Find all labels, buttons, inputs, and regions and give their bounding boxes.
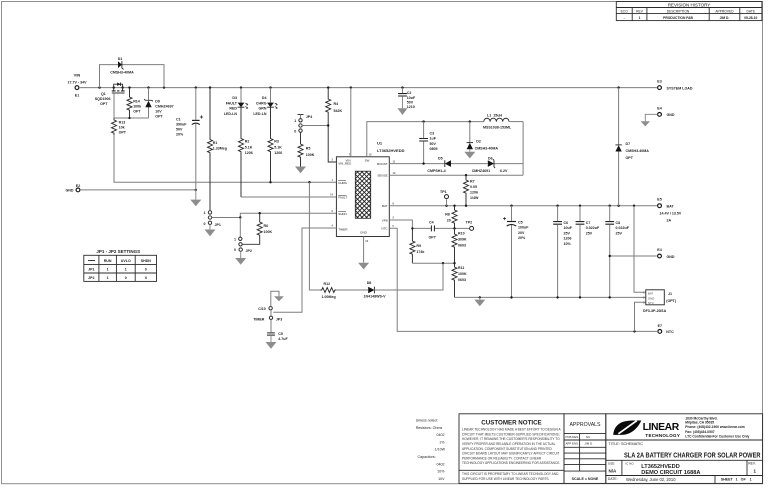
svg-text:D4: D4 (262, 96, 267, 100)
resistor R12 (321, 282, 337, 299)
wire SENSE net (389, 174, 523, 176)
svg-text:100K: 100K (264, 230, 273, 234)
capacitor C4 (429, 220, 437, 239)
resistor R9 (410, 228, 425, 263)
svg-text:PRODUCTION FAB: PRODUCTION FAB (663, 16, 693, 20)
svg-text:0: 0 (145, 268, 147, 272)
svg-text:TECHNOLOGY: TECHNOLOGY (645, 433, 680, 438)
wire VFB net (389, 220, 454, 228)
svg-text:TITLE: SCHEMATIC: TITLE: SCHEMATIC (609, 442, 644, 446)
capacitor C1 (176, 88, 203, 190)
svg-text:J1: J1 (668, 292, 672, 296)
svg-text:20%: 20% (518, 236, 526, 240)
svg-text:E4: E4 (657, 106, 661, 110)
svg-text:CIRCUIT THAT MEETS CUSTOMER-SU: CIRCUIT THAT MEETS CUSTOMER-SUPPLIED SPE… (462, 432, 560, 436)
svg-text:LT3652HVEDD: LT3652HVEDD (641, 464, 679, 470)
svg-text:NC: NC (586, 435, 590, 439)
svg-text:SQD1906: SQD1906 (95, 97, 111, 101)
svg-text:5.1K: 5.1K (274, 145, 282, 149)
wire E2 GND line (81, 189, 196, 191)
svg-text:-: - (624, 16, 625, 20)
svg-text:0603: 0603 (458, 244, 466, 248)
terminal E5 BAT (657, 198, 682, 223)
svg-text:LTC Confidential-For Customer: LTC Confidential-For Customer Use Only (685, 435, 749, 439)
svg-text:CMHZ4691: CMHZ4691 (472, 169, 490, 173)
resistor R8 (445, 206, 457, 229)
svg-text:TECHNOLOGY APPLICATIONS ENGINE: TECHNOLOGY APPLICATIONS ENGINEERING FOR … (462, 461, 560, 465)
wire D8 to divider node (374, 263, 443, 290)
svg-text:1: 1 (639, 16, 641, 20)
terminal E2 GND (66, 184, 81, 193)
svg-text:N/A: N/A (609, 468, 618, 473)
ground symbol (JP3 C/10) (274, 296, 284, 301)
capacitor C7 (576, 206, 600, 298)
svg-text:10V: 10V (438, 477, 445, 481)
svg-text:1: 1 (107, 276, 109, 280)
svg-text:U1: U1 (377, 141, 383, 146)
svg-text:OPT: OPT (429, 236, 437, 240)
svg-text:0: 0 (125, 276, 127, 280)
svg-text:TP1: TP1 (440, 190, 447, 194)
svg-text:R4: R4 (334, 102, 339, 106)
wire D1 bypass loop (100, 65, 165, 88)
svg-text:100K: 100K (458, 272, 467, 276)
resistor R6 (242, 213, 272, 244)
svg-text:1210: 1210 (407, 105, 415, 109)
capacitor C2 (398, 88, 416, 109)
svg-text:Q1: Q1 (101, 92, 106, 96)
svg-text:R10: R10 (458, 232, 465, 236)
svg-text:0805: 0805 (430, 147, 438, 151)
svg-text:2A: 2A (667, 218, 672, 222)
svg-text:D8: D8 (367, 281, 372, 285)
svg-text:CUSTOMER NOTICE: CUSTOMER NOTICE (481, 420, 541, 427)
wire BAT rail (389, 205, 657, 207)
wire gate net bottom (114, 117, 149, 119)
jumper JP1 (204, 211, 221, 227)
svg-text:REV.: REV. (748, 462, 756, 466)
LED D3 FAULT (224, 88, 248, 116)
wire BOOST net (389, 163, 523, 165)
svg-text:R9: R9 (416, 244, 421, 248)
svg-text:VIN_REG: VIN_REG (338, 162, 352, 166)
svg-text:10uF: 10uF (564, 226, 573, 230)
svg-text:VFB: VFB (382, 218, 388, 222)
svg-text:APPLICATION. COMPONENT SUBSTI: APPLICATION. COMPONENT SUBSTITUTION AND … (462, 447, 553, 451)
test point TP2 (455, 221, 474, 231)
svg-text:C8: C8 (616, 221, 621, 225)
svg-text:OPT: OPT (100, 102, 108, 106)
svg-text:174k: 174k (416, 250, 424, 254)
svg-text:VIN: VIN (74, 72, 81, 77)
capacitor C5 (503, 206, 529, 298)
svg-text:D5: D5 (438, 157, 443, 161)
resistor R5 (298, 132, 315, 166)
svg-text:100uF: 100uF (518, 226, 529, 230)
svg-text:1206: 1206 (470, 190, 478, 194)
svg-text:SYSTEM LOAD: SYSTEM LOAD (667, 86, 693, 90)
svg-text:SW: SW (365, 158, 370, 162)
svg-text:CMHZ4697: CMHZ4697 (155, 104, 173, 108)
svg-text:R7: R7 (470, 180, 475, 184)
svg-text:E2: E2 (76, 184, 80, 188)
junction dots on VIN rail (98, 86, 620, 88)
svg-text:D9: D9 (155, 99, 160, 103)
svg-text:REVISION HISTORY: REVISION HISTORY (668, 2, 711, 7)
svg-text:25V: 25V (564, 231, 571, 235)
svg-text:20%: 20% (176, 133, 184, 137)
svg-text:BOOST: BOOST (377, 162, 388, 166)
ground symbol (E4 upper) (641, 121, 650, 126)
svg-text:50V: 50V (176, 128, 183, 132)
wire GND rail (455, 296, 646, 298)
svg-text:390uF: 390uF (176, 123, 187, 127)
resistor R2 (239, 107, 253, 197)
svg-text:Unless noted:: Unless noted: (416, 418, 438, 422)
svg-text:C4: C4 (429, 220, 434, 224)
svg-text:JP1: JP1 (215, 223, 221, 227)
svg-text:JP3: JP3 (276, 317, 282, 321)
svg-text:1.00Meg: 1.00Meg (322, 295, 336, 299)
svg-text:10%: 10% (564, 242, 572, 246)
svg-text:05-28-10: 05-28-10 (744, 16, 757, 20)
svg-text:SCALE = NONE: SCALE = NONE (572, 477, 599, 481)
svg-text:1uF: 1uF (430, 137, 437, 141)
svg-text:10%: 10% (437, 470, 445, 474)
svg-text:SHEET 1 OF 1: SHEET 1 OF 1 (721, 478, 752, 482)
svg-text:25V: 25V (616, 231, 623, 235)
svg-text:BAT: BAT (648, 291, 654, 295)
svg-text:C3: C3 (430, 131, 435, 135)
svg-text:R8: R8 (445, 213, 450, 217)
ground symbol (C9) (266, 342, 277, 349)
svg-text:DATE: DATE (747, 10, 756, 14)
svg-text:Phone: (408)432-1900 www.lin: Phone: (408)432-1900 www.linear.com (685, 425, 744, 429)
wire CHRG to R12 (309, 182, 320, 290)
svg-text:50V: 50V (430, 142, 437, 146)
svg-text:(OPT): (OPT) (666, 299, 677, 303)
wire JP3 pin1 to gnd (271, 291, 279, 306)
svg-text:LED-LN: LED-LN (253, 112, 267, 116)
svg-text:JIM D.: JIM D. (585, 442, 594, 446)
svg-text:309K: 309K (458, 238, 467, 242)
svg-text:APP ENG.: APP ENG. (566, 442, 580, 446)
svg-text:JP2: JP2 (246, 249, 252, 253)
resistor R14 (127, 88, 141, 118)
svg-text:TIMER: TIMER (338, 227, 348, 231)
svg-text:GND: GND (360, 231, 368, 235)
jumper JP2 (234, 218, 252, 254)
terminal E4 GND (upper) (657, 106, 675, 117)
svg-text:VERIFY PROPER AND RELIABLE OPE: VERIFY PROPER AND RELIABLE OPERATION IN … (462, 442, 556, 446)
svg-text:JP1: JP1 (88, 268, 94, 272)
svg-text:LINEAR TECHNOLOGY HAS MADE A B: LINEAR TECHNOLOGY HAS MADE A BEST EFFORT… (462, 428, 561, 432)
wire E4 lower gnd line (610, 255, 657, 257)
op-amp U1 LT3652HVEDD (330, 141, 404, 243)
svg-text:1.33Meg: 1.33Meg (213, 147, 227, 151)
svg-text:APPROVALS: APPROVALS (569, 422, 601, 428)
capacitor C8 (605, 206, 629, 298)
svg-text:R13: R13 (119, 120, 126, 124)
svg-text:UVLO: UVLO (121, 259, 131, 263)
wire E4 upper gnd (645, 114, 657, 121)
diode D7 (615, 88, 649, 206)
svg-text:GND: GND (667, 255, 675, 259)
LED D4 CHRG (253, 88, 277, 116)
wire L1 to SENSE node (522, 122, 524, 176)
resistor R10 (452, 228, 467, 263)
svg-text:BAT: BAT (667, 205, 675, 209)
svg-text:542K: 542K (334, 109, 343, 113)
diode D8 (364, 281, 387, 299)
svg-text:E4: E4 (657, 248, 661, 252)
test point TP1 (440, 190, 449, 206)
diode D2 (467, 122, 499, 152)
svg-text:SIZE: SIZE (608, 461, 615, 465)
svg-text:R1: R1 (213, 141, 218, 145)
svg-text:10V: 10V (155, 109, 162, 113)
svg-text:C7: C7 (586, 221, 591, 225)
wire CHRG net (R13 to U1 CHRG) (114, 135, 336, 182)
svg-text:D1: D1 (118, 57, 123, 61)
svg-text:D6: D6 (488, 157, 493, 161)
svg-text:JIM D.: JIM D. (720, 16, 730, 20)
revision history table (616, 2, 762, 21)
svg-text:R2: R2 (245, 140, 250, 144)
svg-text:1/10W: 1/10W (435, 448, 446, 452)
svg-text:1: 1 (204, 211, 206, 215)
svg-text:E5: E5 (657, 198, 661, 202)
svg-text:GND: GND (667, 113, 675, 117)
svg-text:E1: E1 (75, 94, 79, 98)
svg-text:R11: R11 (458, 266, 464, 270)
svg-text:JP4: JP4 (306, 115, 312, 119)
svg-text:50V: 50V (407, 100, 414, 104)
svg-text:REV: REV (636, 10, 644, 14)
customer notice box (459, 414, 564, 484)
svg-text:NTC: NTC (381, 227, 388, 231)
svg-text:1206: 1206 (274, 151, 282, 155)
diode D1 (110, 57, 134, 75)
wire VIN rail (80, 87, 657, 89)
svg-text:RED: RED (229, 107, 237, 111)
wire SW to L1 node (367, 122, 484, 157)
svg-text:CHRG: CHRG (256, 101, 267, 105)
svg-text:JP2: JP2 (88, 276, 94, 280)
svg-text:1%: 1% (439, 440, 445, 444)
wire U1 GND pin (363, 237, 365, 263)
svg-text:0: 0 (234, 248, 236, 252)
svg-text:ECO: ECO (621, 10, 629, 14)
ground symbol (U1 GND) (358, 263, 369, 270)
connector J1 (643, 290, 677, 313)
svg-text:OPT: OPT (133, 110, 141, 114)
svg-text:GRN: GRN (259, 107, 267, 111)
svg-text:1: 1 (125, 268, 127, 272)
svg-text:C/10: C/10 (258, 307, 266, 311)
wire R9/R10/R11 node (412, 262, 454, 264)
svg-text:0: 0 (204, 222, 206, 226)
approvals box (564, 414, 606, 484)
wire FAULT net (241, 196, 336, 198)
ground symbol (GND rail) (474, 297, 485, 306)
svg-text:SLA 2A BATTERY CHARGER FOR SOL: SLA 2A BATTERY CHARGER FOR SOLAR POWER (624, 451, 761, 460)
svg-text:SHDN: SHDN (338, 212, 347, 216)
svg-text:D3: D3 (232, 96, 237, 100)
svg-text:TP2: TP2 (466, 221, 473, 225)
svg-text:BAT: BAT (382, 204, 388, 208)
svg-text:1: 1 (294, 119, 296, 123)
ground symbol (D2) (464, 152, 475, 159)
svg-text:D2: D2 (476, 139, 481, 143)
svg-text:GND: GND (648, 296, 654, 300)
svg-text:1206: 1206 (564, 237, 572, 241)
svg-text:GND: GND (66, 189, 74, 193)
wire R12 to D8 (336, 289, 368, 291)
wire JP1 common to SHDN (212, 213, 337, 217)
svg-text:L1 15uH: L1 15uH (487, 114, 502, 118)
svg-text:C5: C5 (518, 221, 523, 225)
svg-text:JP1 - JP2 SETTINGS: JP1 - JP2 SETTINGS (96, 249, 140, 254)
resistor R13 (112, 118, 127, 135)
svg-text:E7: E7 (658, 324, 662, 328)
svg-text:D7: D7 (626, 142, 631, 146)
svg-text:14.4V / 13.5V: 14.4V / 13.5V (660, 212, 682, 216)
svg-text:20V: 20V (518, 231, 525, 235)
svg-text:C2: C2 (407, 91, 412, 95)
svg-text:C1: C1 (176, 118, 181, 122)
terminal E7 NTC (658, 324, 674, 334)
terminal E3 SYSTEM LOAD (657, 80, 693, 91)
capacitor C9 (267, 320, 288, 343)
svg-text:C6: C6 (564, 221, 569, 225)
svg-text:SHDN: SHDN (141, 259, 152, 263)
svg-text:PERFORMANCE OR RELIABILITY. C: PERFORMANCE OR RELIABILITY. CONTACT LINE… (462, 456, 542, 460)
svg-text:DESCRIPTION: DESCRIPTION (667, 10, 690, 14)
transistor Q1 (95, 83, 125, 119)
ground symbol (R5) (295, 167, 306, 174)
svg-text:R5: R5 (306, 146, 311, 150)
svg-text:APPROVED: APPROVED (715, 10, 734, 14)
svg-text:LED-LN: LED-LN (224, 112, 238, 116)
svg-text:20: 20 (447, 218, 451, 222)
capacitor C6 (553, 206, 572, 298)
svg-text:R3: R3 (274, 140, 279, 144)
svg-text:RUN: RUN (104, 259, 112, 263)
svg-text:CHRG: CHRG (338, 181, 347, 185)
svg-text:1N4148WS-V: 1N4148WS-V (364, 295, 387, 299)
resistor R3 (268, 107, 282, 182)
svg-text:10uF: 10uF (407, 96, 416, 100)
svg-text:Fax: (408)434-0507: Fax: (408)434-0507 (685, 430, 714, 434)
diode D5 (427, 157, 451, 173)
svg-text:0.022uF: 0.022uF (586, 226, 600, 230)
svg-text:FAULT: FAULT (338, 196, 347, 200)
svg-text:MSS1038-153ML: MSS1038-153ML (483, 126, 512, 130)
svg-text:OPT: OPT (119, 130, 127, 134)
svg-text:CMSH3-40MA: CMSH3-40MA (110, 71, 134, 75)
svg-text:0: 0 (294, 129, 296, 133)
svg-text:10k: 10k (119, 125, 125, 129)
svg-text:0603: 0603 (458, 278, 466, 282)
svg-text:R6: R6 (264, 224, 269, 228)
svg-text:Capacitors:: Capacitors: (418, 455, 436, 459)
svg-text:100K: 100K (306, 153, 315, 157)
resistor R7 (464, 175, 479, 206)
Linear Technology logo (613, 421, 641, 435)
svg-text:0402: 0402 (437, 462, 445, 466)
ground symbol (C2) (398, 108, 408, 115)
svg-text:CMPSH1-4: CMPSH1-4 (427, 169, 445, 173)
svg-text:17.7V - 34V: 17.7V - 34V (68, 81, 88, 85)
wire J1 NTC (635, 302, 646, 331)
svg-text:IC NO.: IC NO. (625, 461, 634, 465)
svg-text:OPT: OPT (626, 156, 634, 160)
svg-text:4.7uF: 4.7uF (278, 337, 288, 341)
svg-text:R14: R14 (133, 100, 140, 104)
svg-text:DATE:: DATE: (608, 477, 618, 481)
svg-text:LT3652HVEDD: LT3652HVEDD (377, 148, 405, 153)
jumper JP4 (294, 115, 329, 134)
resistor R4 (326, 88, 343, 162)
title block company cell (606, 414, 763, 484)
svg-text:1206: 1206 (245, 151, 253, 155)
svg-text:HOWEVER, IT REMAINS THE CUSTOM: HOWEVER, IT REMAINS THE CUSTOMER'S RESPO… (462, 437, 560, 441)
svg-text:OPT: OPT (155, 114, 163, 118)
svg-text:0.05: 0.05 (470, 185, 477, 189)
svg-text:R12: R12 (324, 282, 331, 286)
wire U1 VIN pin to rail (350, 88, 352, 157)
resistor R11 (452, 263, 467, 297)
svg-text:SUPPLIED FOR USE WITH LINEAR T: SUPPLIED FOR USE WITH LINEAR TECHNOLOGY … (462, 477, 550, 481)
svg-text:Milpitas, CA 95035: Milpitas, CA 95035 (685, 420, 714, 424)
ground symbol (JP1) (205, 225, 216, 237)
ground symbol (JP2) (235, 251, 246, 264)
resistor R1 (208, 88, 227, 211)
svg-text:1: 1 (107, 268, 109, 272)
svg-text:NTC: NTC (666, 330, 674, 334)
zener diode D6 (472, 157, 508, 173)
ground symbol (C1/E2) (190, 190, 201, 206)
svg-text:TIMER: TIMER (253, 317, 265, 321)
svg-text:FAULT: FAULT (226, 101, 238, 105)
svg-text:5.1K: 5.1K (245, 145, 253, 149)
capacitor C3 (419, 122, 437, 164)
wire NTC net (389, 228, 657, 331)
svg-text:DF3-3P-2DSA: DF3-3P-2DSA (643, 309, 667, 313)
JP1-JP2 settings table (84, 249, 157, 281)
svg-text:SENSE: SENSE (377, 173, 387, 177)
svg-text:CMSH3-40MA: CMSH3-40MA (626, 149, 650, 153)
svg-text:E3: E3 (657, 80, 661, 84)
inductor L1 (483, 114, 523, 130)
wire TIMER net (273, 228, 336, 312)
svg-text:100k: 100k (133, 105, 141, 109)
svg-text:0402: 0402 (437, 433, 445, 437)
terminal E4 GND (lower) (657, 248, 675, 259)
svg-text:25V: 25V (586, 231, 593, 235)
wire J1 BAT (634, 206, 646, 293)
svg-text:1/4W: 1/4W (470, 196, 479, 200)
svg-text:CIRCUIT BOARD LAYOUT MAY SIGNI: CIRCUIT BOARD LAYOUT MAY SIGNIFICANTLY A… (462, 452, 560, 456)
svg-text:LINEAR: LINEAR (643, 422, 680, 433)
svg-text:Resistors: Ohms: Resistors: Ohms (416, 426, 443, 430)
svg-text:CMSH3-40MA: CMSH3-40MA (475, 147, 499, 151)
svg-text:NTC: NTC (648, 301, 654, 305)
svg-text:THIS CIRCUIT IS PROPRIETARY TO: THIS CIRCUIT IS PROPRIETARY TO LINEAR TE… (462, 472, 559, 476)
svg-text:Wednesday, June 02, 2010: Wednesday, June 02, 2010 (626, 477, 676, 482)
svg-text:C9: C9 (278, 332, 283, 336)
